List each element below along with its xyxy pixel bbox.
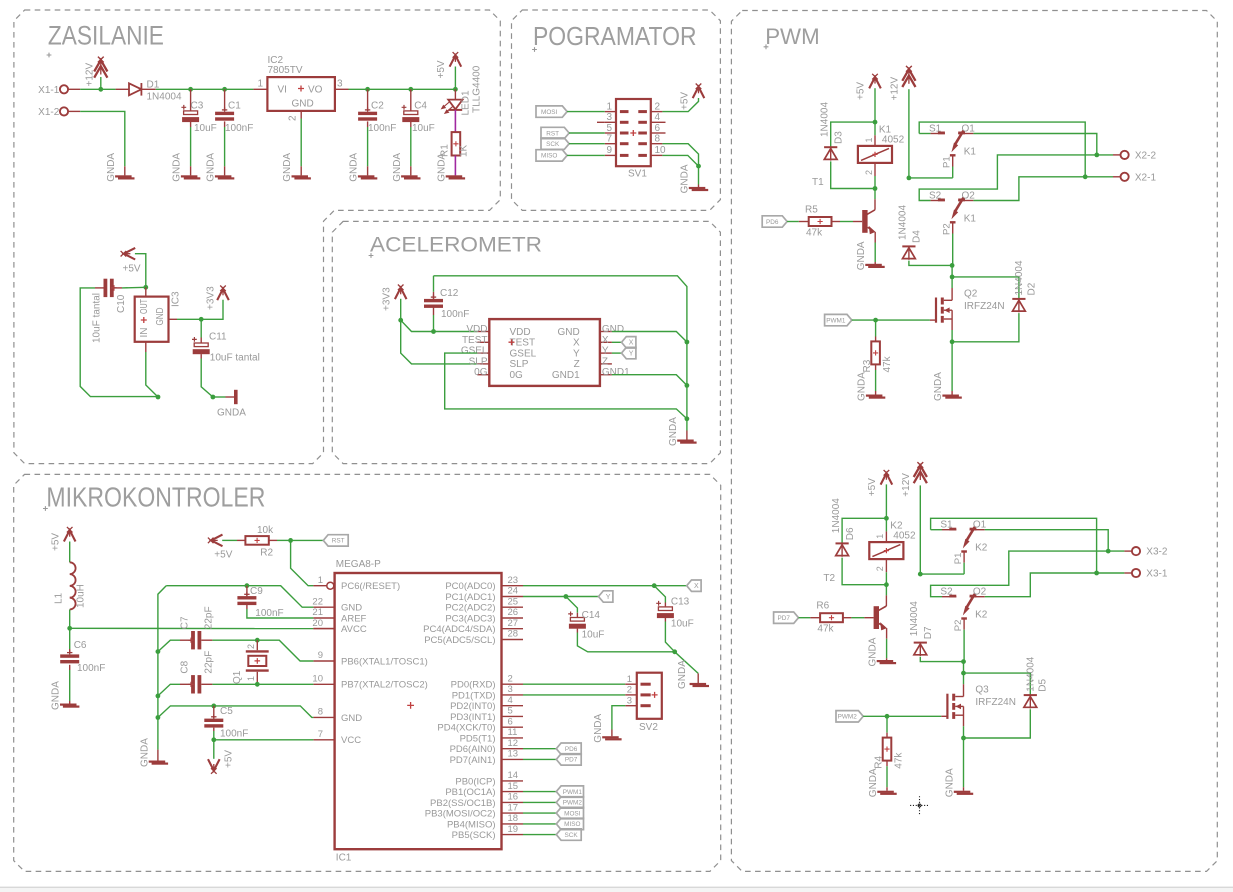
- svg-text:C12: C12: [440, 288, 459, 299]
- svg-text:17: 17: [508, 802, 519, 813]
- pin header SV1: [616, 99, 651, 166]
- svg-text:3: 3: [606, 112, 612, 123]
- svg-text:Q3: Q3: [975, 685, 989, 696]
- svg-text:TEST: TEST: [462, 335, 488, 346]
- accelerometer IC box: [489, 319, 600, 386]
- svg-text:5: 5: [508, 706, 513, 717]
- section frame ACELEROMETR: [332, 221, 720, 463]
- junction at T1 collector: [873, 186, 878, 191]
- svg-text:PWM1: PWM1: [826, 317, 846, 324]
- wire S1 to X3-1: [931, 518, 1097, 573]
- wire Q2 source to GNDA: [951, 342, 953, 391]
- wire S2 to X3-2: [931, 551, 1109, 597]
- svg-text:C3: C3: [191, 101, 204, 112]
- tag SCK: [541, 138, 569, 149]
- svg-text:PB4(MISO): PB4(MISO): [447, 819, 496, 830]
- wire PD0 to SV2 pin1: [523, 683, 625, 685]
- svg-text:SCK: SCK: [565, 832, 579, 839]
- svg-text:+5V: +5V: [856, 82, 867, 100]
- svg-text:AREF: AREF: [341, 613, 367, 624]
- svg-text:PB6(XTAL1/TOSC1): PB6(XTAL1/TOSC1): [341, 656, 428, 667]
- diode D2 1N4004: [952, 277, 1019, 299]
- junction bus pin8: [156, 715, 161, 720]
- junction at X2-1: [1083, 174, 1088, 179]
- capacitor C5 100nF: [213, 706, 215, 719]
- junction at IC3 input: [143, 285, 148, 290]
- svg-text:C14: C14: [582, 610, 601, 621]
- svg-text:C4: C4: [414, 101, 427, 112]
- inductor L1 10uH: [70, 562, 76, 609]
- svg-text:1: 1: [257, 79, 263, 90]
- svg-text:PB5(SCK): PB5(SCK): [452, 830, 496, 841]
- wire gate of Q2: [876, 319, 930, 321]
- svg-text:PD6: PD6: [766, 219, 779, 226]
- svg-text:10: 10: [655, 145, 667, 156]
- junction at X3-1: [1094, 571, 1099, 576]
- svg-text:GND: GND: [341, 603, 362, 614]
- wire PC1 to Y tag: [523, 596, 599, 598]
- capacitor C14 10uF: [566, 597, 578, 613]
- wire C9 net to GND pin22: [166, 586, 313, 608]
- capacitor C8 22pF: [191, 675, 195, 693]
- svg-text:22pF: 22pF: [204, 651, 215, 674]
- voltage regulator IC2 7805TV: [267, 77, 335, 111]
- IC3 input pin stub: [145, 287, 147, 296]
- svg-text:19: 19: [508, 824, 519, 835]
- svg-text:0G: 0G: [510, 370, 524, 381]
- svg-text:PWM: PWM: [765, 24, 820, 49]
- MOSFET Q3 IRFZ24N: [963, 684, 965, 696]
- svg-text:0G: 0G: [474, 367, 488, 378]
- svg-text:14: 14: [508, 770, 519, 781]
- junction at PC0/C13: [652, 583, 657, 588]
- svg-text:100nF: 100nF: [225, 123, 253, 134]
- capacitor C13 10uF: [654, 586, 665, 603]
- pad X3-2: [1108, 550, 1124, 552]
- svg-text:OUT: OUT: [139, 299, 150, 314]
- junction at RST: [288, 538, 293, 543]
- svg-text:PD7: PD7: [565, 757, 578, 764]
- svg-text:10uF: 10uF: [671, 619, 694, 630]
- svg-text:C8: C8: [180, 660, 191, 673]
- relay coil K2 4052: [869, 542, 903, 559]
- wire LED1 to R1 (magenta net): [454, 110, 456, 132]
- svg-text:K1: K1: [964, 214, 977, 225]
- junction at PC1/C14: [564, 594, 569, 599]
- resistor R3 47k: [875, 320, 877, 336]
- svg-text:K1: K1: [964, 147, 977, 158]
- wire RST to SV1 pin5: [569, 132, 605, 134]
- junction accel ground 2: [685, 383, 690, 388]
- svg-text:3: 3: [508, 684, 513, 695]
- svg-text:2: 2: [246, 644, 256, 649]
- svg-text:2: 2: [288, 115, 299, 121]
- svg-text:10: 10: [312, 674, 323, 685]
- junction bus C8: [156, 694, 161, 699]
- svg-text:PB0(ICP): PB0(ICP): [455, 776, 495, 787]
- wire ground bus to GND pin8: [158, 706, 314, 718]
- svg-text:PD7: PD7: [777, 615, 790, 622]
- svg-text:1N4004: 1N4004: [831, 498, 842, 533]
- ground GNDA rotated: [234, 390, 238, 404]
- svg-text:47k: 47k: [882, 355, 893, 372]
- svg-text:2: 2: [627, 685, 632, 696]
- IC1 pin1 inversion circle: [327, 582, 334, 589]
- svg-text:8: 8: [655, 134, 661, 145]
- junction at X3-2: [1106, 549, 1111, 554]
- svg-text:+5V: +5V: [51, 533, 62, 551]
- ground GNDA at C13: [690, 683, 707, 685]
- wire GND pin to ground bus: [612, 332, 687, 343]
- svg-text:4052: 4052: [893, 531, 916, 542]
- svg-text:PC5(ADC5/SCL): PC5(ADC5/SCL): [424, 635, 495, 646]
- tag X mikro: [687, 580, 701, 591]
- wire D1 to IC2 input: [156, 88, 254, 90]
- svg-text:TEST: TEST: [510, 338, 536, 349]
- svg-text:1N4004: 1N4004: [909, 601, 920, 636]
- junction at SV1 ground: [696, 164, 701, 169]
- svg-text:1N4004: 1N4004: [898, 205, 909, 240]
- svg-text:PD5(T1): PD5(T1): [460, 733, 496, 744]
- svg-text:28: 28: [508, 629, 519, 640]
- wire R1 to GNDA (magenta net): [454, 156, 456, 176]
- svg-text:GSEL: GSEL: [510, 348, 537, 359]
- wire O2 to X3-1: [985, 573, 1097, 597]
- junction at D4 output: [950, 263, 955, 268]
- svg-text:+5V: +5V: [123, 264, 141, 275]
- svg-text:IC1: IC1: [336, 853, 352, 864]
- wire +5V to IC3 input: [135, 254, 146, 288]
- junction bus C7: [156, 649, 161, 654]
- tag PD6 mikro: [523, 748, 556, 750]
- svg-text:21: 21: [312, 607, 323, 618]
- wire MISO to SV1 pin9: [567, 154, 605, 156]
- resistor R1 1K: [452, 132, 461, 155]
- svg-text:C7: C7: [180, 616, 191, 629]
- svg-text:10uF: 10uF: [582, 630, 605, 641]
- svg-text:VI: VI: [278, 84, 287, 95]
- junction at +12V / P1: [918, 572, 923, 577]
- resistor R4 47k: [886, 716, 888, 732]
- ground GNDA at R1: [446, 175, 463, 177]
- svg-text:GNDA: GNDA: [868, 768, 879, 797]
- svg-text:4: 4: [508, 695, 513, 706]
- svg-text:PD6(AIN0): PD6(AIN0): [450, 744, 496, 755]
- svg-text:VDD: VDD: [466, 324, 487, 335]
- accel left pin stubs: [477, 331, 489, 333]
- svg-text:Z: Z: [574, 359, 580, 370]
- junction at C1: [222, 87, 227, 92]
- wire to GNDA near C13: [675, 652, 699, 674]
- ground bus vertical accel: [686, 342, 688, 431]
- svg-text:+5V: +5V: [867, 478, 878, 496]
- svg-text:GND: GND: [292, 98, 314, 109]
- wire SV1 pin10 to GNDA: [662, 155, 698, 166]
- svg-text:16: 16: [508, 792, 519, 803]
- svg-text:7: 7: [606, 134, 612, 145]
- wire SV2 pin3 to GNDA: [612, 706, 625, 730]
- svg-text:GND: GND: [155, 308, 166, 326]
- capacitor C2 100nF: [367, 89, 369, 111]
- svg-text:P2: P2: [953, 620, 964, 632]
- svg-text:MISO: MISO: [541, 153, 557, 160]
- tag PD7 mikro: [523, 758, 556, 760]
- ground GNDA at C2: [358, 175, 375, 177]
- svg-text:GND1: GND1: [552, 370, 580, 381]
- svg-text:GNDA: GNDA: [867, 637, 878, 666]
- tag PWM1: [825, 314, 852, 325]
- svg-text:12: 12: [508, 738, 519, 749]
- svg-text:Y: Y: [606, 594, 611, 601]
- wire MOSI to SV1 pin1: [567, 111, 605, 113]
- svg-text:D6: D6: [845, 527, 856, 540]
- junction at C12 bottom: [431, 329, 436, 334]
- IC3 output pin wire: [169, 318, 178, 320]
- ground GNDA at SV2: [602, 736, 619, 738]
- svg-text:15: 15: [508, 781, 519, 792]
- svg-text:D5: D5: [1038, 678, 1049, 691]
- svg-text:100nF: 100nF: [368, 123, 396, 134]
- svg-text:VDD: VDD: [510, 327, 531, 338]
- junction at VCC pin7: [211, 737, 216, 742]
- pad X2-2: [1097, 154, 1113, 156]
- svg-text:PD7(AIN1): PD7(AIN1): [450, 755, 496, 766]
- junction at IC3 ground: [156, 395, 161, 400]
- svg-text:PWM2: PWM2: [563, 800, 583, 807]
- tag PWM2: [836, 711, 863, 722]
- svg-text:K2: K2: [975, 543, 988, 554]
- junction at R3 top: [873, 318, 878, 323]
- svg-text:Q2: Q2: [964, 289, 978, 300]
- svg-text:X3-1: X3-1: [1146, 569, 1168, 580]
- svg-text:C2: C2: [371, 101, 384, 112]
- svg-text:R5: R5: [805, 204, 818, 215]
- svg-text:1: 1: [318, 575, 323, 586]
- diode D4 1N4004: [902, 245, 915, 247]
- svg-text:X2-2: X2-2: [1135, 151, 1157, 162]
- svg-text:GNDA: GNDA: [680, 164, 691, 193]
- junction at D5 branch: [961, 671, 966, 676]
- svg-text:GNDA: GNDA: [392, 153, 403, 182]
- svg-text:GNDA: GNDA: [282, 153, 293, 182]
- ground GNDA at R3: [866, 395, 883, 397]
- connector pad X1-1: [60, 85, 68, 93]
- svg-text:4: 4: [655, 112, 661, 123]
- supply +5V arrow at SV1: [693, 84, 705, 99]
- capacitor C10 10uF tantal: [104, 279, 108, 297]
- tag MISO mikro: [523, 823, 556, 825]
- svg-text:X3-2: X3-2: [1146, 547, 1168, 558]
- svg-text:PC3(ADC3): PC3(ADC3): [445, 613, 495, 624]
- svg-text:PD4(XCK/T0): PD4(XCK/T0): [437, 723, 495, 734]
- svg-text:GND: GND: [341, 713, 362, 724]
- junction accel ground 3: [685, 416, 690, 421]
- ground GNDA at C1: [215, 175, 232, 177]
- svg-text:Z: Z: [602, 356, 608, 367]
- svg-text:R3: R3: [862, 359, 873, 372]
- svg-text:+12V: +12V: [85, 63, 96, 87]
- svg-text:IN: IN: [139, 328, 150, 338]
- svg-text:D3: D3: [834, 131, 845, 144]
- diode D5 1N4004: [964, 673, 1031, 695]
- svg-text:GND: GND: [602, 324, 624, 335]
- diode D3 1N4004: [831, 122, 875, 147]
- svg-text:SLP: SLP: [510, 359, 529, 370]
- svg-text:MIKROKONTROLER: MIKROKONTROLER: [46, 481, 265, 512]
- svg-text:+5V: +5V: [214, 550, 232, 561]
- SV1 pin stubs: [605, 111, 616, 113]
- svg-text:1: 1: [627, 674, 632, 685]
- svg-text:D2: D2: [1026, 282, 1037, 295]
- svg-text:VO: VO: [308, 84, 323, 95]
- svg-text:25: 25: [508, 596, 519, 607]
- junction at +12V: [98, 87, 103, 92]
- wire X1-2 to GNDA: [80, 111, 125, 166]
- svg-text:PC1(ADC1): PC1(ADC1): [445, 592, 495, 603]
- wire C8 to ground bus: [158, 684, 180, 696]
- svg-text:24: 24: [508, 586, 519, 597]
- svg-text:1: 1: [875, 534, 885, 539]
- svg-text:GNDA: GNDA: [172, 153, 183, 182]
- junction at K1 pin1: [873, 120, 878, 125]
- window bottom border line: [0, 887, 1233, 888]
- svg-text:100nF: 100nF: [220, 729, 248, 740]
- capacitor C7 22pF: [191, 631, 195, 649]
- svg-text:T1: T1: [812, 177, 824, 188]
- svg-text:+5V: +5V: [224, 750, 235, 768]
- svg-text:+3V3: +3V3: [206, 286, 217, 310]
- svg-text:47k: 47k: [806, 228, 823, 239]
- svg-text:C13: C13: [671, 597, 690, 608]
- supply +3V3 arrow accelerometer: [395, 285, 407, 300]
- svg-text:+5V: +5V: [436, 60, 447, 78]
- svg-text:R4: R4: [873, 755, 884, 768]
- svg-text:GNDA: GNDA: [106, 153, 117, 182]
- svg-text:PC0(ADC0): PC0(ADC0): [445, 581, 495, 592]
- svg-text:26: 26: [508, 607, 519, 618]
- resistor R6 47k: [820, 613, 843, 622]
- tag Y accel: [612, 352, 622, 354]
- section frame PWM: [731, 11, 1217, 872]
- supply +5V arrow at K2: [881, 470, 893, 485]
- svg-text:GNDA: GNDA: [349, 153, 360, 182]
- junction at D7 output: [961, 659, 966, 664]
- svg-text:PD2(INT0): PD2(INT0): [450, 701, 495, 712]
- wire C10 to ground rail: [80, 288, 159, 397]
- svg-text:4052: 4052: [882, 134, 905, 145]
- svg-text:P1: P1: [953, 553, 964, 565]
- svg-text:20: 20: [312, 618, 323, 629]
- tag PWM1 mikro: [523, 791, 556, 793]
- svg-text:47k: 47k: [894, 752, 905, 769]
- svg-text:POGRAMATOR: POGRAMATOR: [533, 23, 697, 51]
- junction at C9 top: [245, 583, 250, 588]
- wire +3V3 to VDD pin: [401, 320, 478, 331]
- svg-text:GNDA: GNDA: [856, 241, 867, 270]
- svg-text:X1-2: X1-2: [38, 107, 60, 118]
- wire S1 to X2-1: [919, 122, 1085, 177]
- capacitor C9 100nF: [246, 586, 248, 597]
- svg-text:10uF: 10uF: [412, 123, 435, 134]
- ground GNDA at T1: [865, 264, 882, 266]
- svg-text:GNDA: GNDA: [593, 713, 604, 742]
- supply +5V arrow at LED1: [450, 52, 462, 67]
- wire AVCC row pin20: [70, 627, 314, 629]
- capacitor C3 10uF: [190, 89, 192, 110]
- ground GNDA at T2: [877, 660, 894, 662]
- ground GNDA at SV1: [689, 187, 706, 189]
- svg-text:8: 8: [318, 707, 323, 718]
- svg-text:GNDA: GNDA: [217, 408, 246, 419]
- diode D7 1N4004: [914, 642, 927, 644]
- tag PD6: [762, 216, 787, 227]
- tag X accel: [612, 341, 622, 343]
- svg-text:PWM1: PWM1: [563, 789, 583, 796]
- svg-text:R6: R6: [816, 601, 829, 612]
- ground GNDA at Q2: [942, 395, 959, 397]
- svg-text:100nF: 100nF: [441, 309, 469, 320]
- wire GSEL to ground bus: [445, 353, 687, 419]
- supply +5V arrow at R2: [208, 535, 223, 547]
- tag PWM2 mikro: [523, 801, 556, 803]
- wire gate of Q3: [887, 715, 941, 717]
- svg-text:PB7(XTAL2/TOSC2): PB7(XTAL2/TOSC2): [341, 680, 428, 691]
- ground GNDA at X1-2: [115, 175, 132, 177]
- svg-text:SLP: SLP: [469, 356, 488, 367]
- ground GNDA at C6: [60, 704, 77, 706]
- IC1 right pin stubs and numbers: [502, 585, 524, 587]
- wire O1 to X2-2: [973, 134, 1096, 155]
- svg-text:AVCC: AVCC: [341, 624, 367, 635]
- junction at X2-2: [1094, 153, 1099, 158]
- diode D6 1N4004: [842, 518, 886, 543]
- svg-text:C6: C6: [74, 640, 87, 651]
- svg-text:L1: L1: [54, 592, 65, 604]
- section frame POGRAMATOR: [512, 10, 721, 210]
- svg-text:11: 11: [508, 727, 518, 738]
- svg-text:+5V: +5V: [680, 92, 691, 110]
- accel right pin stubs: [600, 331, 612, 333]
- resistor R5 47k: [809, 217, 832, 226]
- supply +5V arrow at L1: [64, 527, 76, 542]
- svg-text:Y: Y: [573, 348, 580, 359]
- tag Y mikro: [599, 591, 613, 602]
- wire S2 to X2-2: [919, 155, 1097, 201]
- svg-text:+12V: +12V: [901, 473, 912, 497]
- svg-text:MOSI: MOSI: [541, 109, 558, 116]
- svg-text:IRFZ24N: IRFZ24N: [964, 301, 1005, 312]
- svg-text:IRFZ24N: IRFZ24N: [975, 697, 1016, 708]
- capacitor C11 10uF tantal: [200, 319, 202, 337]
- wire PD1 to SV2 pin2: [523, 694, 625, 696]
- svg-text:K2: K2: [975, 610, 988, 621]
- ground GNDA at Q3: [954, 791, 971, 793]
- wire O1 to X3-2: [985, 530, 1108, 551]
- svg-text:PC4(ADC4/SDA): PC4(ADC4/SDA): [423, 624, 495, 635]
- svg-text:6: 6: [655, 123, 661, 134]
- svg-text:MISO: MISO: [564, 821, 580, 828]
- svg-text:R2: R2: [260, 547, 273, 558]
- wire SV1 pin8 to GNDA: [662, 144, 698, 166]
- capacitor C1 100nF: [224, 89, 226, 111]
- pad X2-1: [1085, 176, 1113, 178]
- ground GNDA at bus: [149, 761, 166, 763]
- wire C8 to XTAL2 pin10: [212, 683, 313, 685]
- svg-text:GNDA: GNDA: [945, 768, 956, 797]
- svg-text:GND1: GND1: [602, 367, 630, 378]
- junction at +3V3 accel: [398, 318, 403, 323]
- svg-text:GNDA: GNDA: [668, 417, 679, 446]
